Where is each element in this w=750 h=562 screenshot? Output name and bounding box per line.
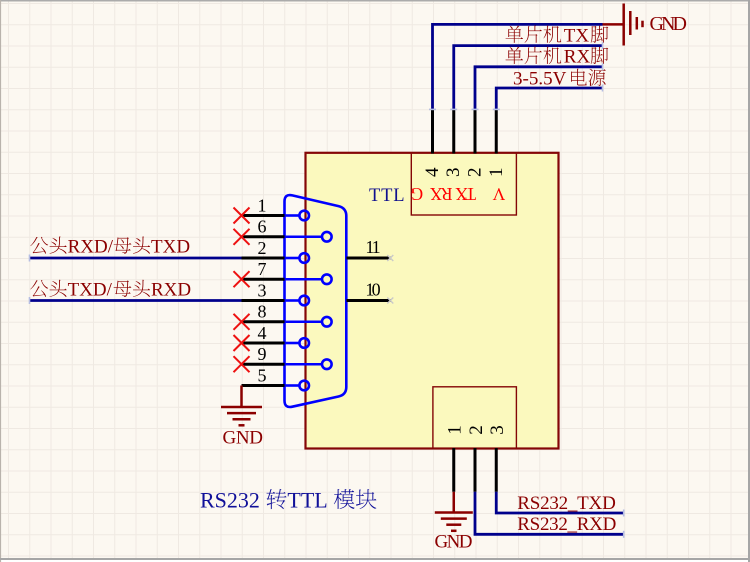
no-connect X on DB9 pin 7 (234, 271, 250, 287)
wire RS232_RXD net (bottom pin 2) (475, 492, 624, 535)
DB9 pin 7 stub (242, 278, 285, 281)
wire end tick RS232_RXD net (623, 531, 625, 538)
svg-text:4: 4 (422, 167, 443, 177)
title text RS232 转TTL 模块 (200, 487, 376, 512)
net label 公头TXD/母头RXD (30, 280, 112, 301)
DB9 pin 3 stub (242, 299, 285, 302)
svg-text:7: 7 (258, 259, 267, 279)
DB9 pin 2 circle (299, 253, 309, 263)
DB9 pin 6 internal lead (285, 235, 323, 238)
svg-text:1: 1 (445, 425, 466, 435)
wire 3-5.5V power net (pin1) (496, 88, 602, 109)
TTL header sub-rectangle J2 (411, 153, 516, 215)
DB9 pin 1 stub (242, 214, 285, 217)
DB9 pin 5 stub (242, 384, 285, 387)
svg-text:GND: GND (650, 13, 688, 35)
DB9 pin 4 internal lead (285, 342, 300, 345)
wire end tick RS232_TXD net (623, 510, 625, 517)
no-connect X on DB9 pin 8 (234, 314, 250, 330)
svg-text:GND: GND (435, 532, 473, 553)
no-connect X on DB9 pin 6 (234, 229, 250, 245)
DB9 pin 1 circle (299, 211, 309, 221)
wire end tick 3-5.5V net (602, 85, 604, 92)
svg-text:1: 1 (486, 167, 507, 177)
svg-text:3: 3 (258, 280, 267, 300)
wire 单片机TX脚 net (pin3) (454, 46, 603, 110)
end marker pin 11 (387, 255, 393, 261)
DB9 pin 3 circle (299, 296, 309, 306)
ground symbol (top right power port) (603, 4, 643, 46)
DB9 pin 4 stub (242, 342, 285, 345)
junction tick pin4 top (429, 108, 436, 110)
DB9 pin 6 circle (322, 232, 332, 242)
DB9 pin 3 internal lead (285, 299, 300, 302)
svg-text:4: 4 (258, 323, 267, 343)
svg-text:3: 3 (487, 425, 508, 435)
wire end tick 公头RXD net (29, 255, 31, 262)
wire GND net (pin4 up to top-right ground) (433, 24, 603, 109)
net label 单片机RX脚 (506, 47, 591, 68)
svg-text:3: 3 (443, 167, 464, 177)
wire / power lead from DB9 pin 5 to ground (240, 386, 243, 408)
net label 公头RXD/母头TXD (30, 236, 113, 257)
DB9 pin 8 internal lead (285, 320, 323, 323)
svg-text:G: G (410, 184, 423, 204)
pin 2 of bottom header (474, 448, 477, 492)
svg-text:V: V (492, 184, 505, 204)
svg-text:GND: GND (223, 428, 264, 449)
DB9 pin 9 circle (322, 359, 332, 369)
DB9 pin 8 circle (322, 317, 332, 327)
svg-text:9: 9 (258, 344, 267, 364)
wire end tick 单片机TX net (602, 42, 604, 49)
no-connect X on DB9 pin 1 (234, 208, 250, 224)
svg-text:RS232: RS232 (200, 487, 260, 512)
power lead from bottom pin 1 to ground (453, 492, 456, 513)
svg-text:6: 6 (258, 217, 267, 237)
junction tick pin1 top (493, 108, 500, 110)
wire 公头TXD/母头RXD net (DB9 pin 3) (30, 299, 242, 302)
svg-text:5: 5 (258, 365, 267, 385)
ground symbol (bottom) (435, 513, 473, 531)
svg-text:TXD/: TXD/ (68, 280, 113, 301)
svg-text:3-5.5V: 3-5.5V (513, 69, 567, 90)
wire 公头RXD/母头TXD net (DB9 pin 2) (30, 257, 242, 260)
no-connect X on DB9 pin 4 (234, 335, 250, 351)
DB9 pin 7 internal lead (285, 278, 323, 281)
pin 2 of TTL header (top) (474, 109, 477, 153)
svg-text:TX: TX (564, 25, 590, 46)
ground symbol (left, DB9 pin 5) (221, 407, 262, 425)
junction tick pin2 top (472, 108, 479, 110)
bottom header sub-rectangle J3 (433, 387, 517, 449)
svg-text:8: 8 (258, 302, 267, 322)
pin 11 stub (module, right of DB9) (347, 257, 391, 260)
svg-text:2: 2 (258, 238, 267, 258)
wire 单片机RX脚 net (pin2) (475, 67, 603, 110)
pin 1 of bottom header (452, 448, 455, 492)
DB9 pin 9 stub (242, 363, 285, 366)
svg-text:RX: RX (564, 47, 591, 68)
DB9 pin 5 circle (299, 381, 309, 391)
svg-text:TXD: TXD (151, 236, 190, 257)
junction tick pin3 top (450, 108, 457, 110)
svg-text:2: 2 (466, 425, 487, 435)
svg-text:RX: RX (429, 184, 452, 204)
pin 3 of bottom header (495, 448, 498, 492)
svg-text:TTL: TTL (369, 186, 405, 206)
DB9 pin 8 stub (242, 320, 285, 323)
DB9 pin 2 internal lead (285, 257, 300, 260)
svg-text:TTL: TTL (287, 487, 327, 512)
svg-text:2: 2 (465, 167, 486, 177)
net label 单片机TX脚 (506, 25, 590, 46)
svg-text:1: 1 (258, 195, 267, 215)
svg-text:11: 11 (365, 237, 380, 257)
svg-text:RXD/: RXD/ (68, 236, 114, 257)
DB9 pin 4 circle (299, 338, 309, 348)
DB9 pin 5 internal lead (285, 384, 300, 387)
svg-text:10: 10 (365, 280, 380, 300)
no-connect X on DB9 pin 9 (234, 356, 250, 372)
pin 3 of TTL header (top) (452, 109, 455, 153)
DB9 connector J1 outline (285, 195, 347, 407)
pin 4 of TTL header (top) (431, 109, 434, 153)
svg-text:RXD: RXD (151, 280, 191, 301)
wire end tick 单片机RX net (602, 63, 604, 70)
pin 10 stub (module, right of DB9) (347, 299, 391, 302)
svg-text:RS232_RXD: RS232_RXD (517, 514, 616, 535)
wire RS232_TXD net (bottom pin 3) (496, 492, 623, 513)
DB9 pin 6 stub (242, 235, 285, 238)
svg-text:RS232_TXD: RS232_TXD (517, 493, 616, 514)
DB9 pin 2 stub (242, 257, 285, 260)
pin 1 of TTL header (top) (495, 109, 498, 153)
end marker pin 10 (387, 298, 393, 304)
DB9 pin 1 internal lead (285, 214, 300, 217)
svg-text:TX: TX (455, 184, 476, 204)
module body U1 (RS232-to-TTL module) (306, 153, 559, 449)
DB9 pin 7 circle (322, 274, 332, 284)
DB9 pin 9 internal lead (285, 363, 323, 366)
wire end tick 公头TXD net (29, 297, 31, 304)
